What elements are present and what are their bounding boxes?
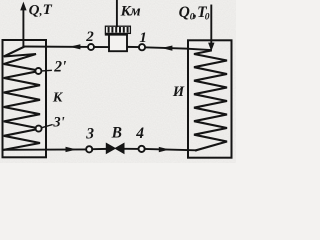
svg-text:И: И	[172, 84, 185, 100]
svg-text:2: 2	[85, 29, 94, 45]
paper grain	[0, 0, 236, 163]
wire: compressor to node 2 (discharge line)	[94, 46, 109, 48]
wire: valve to node 4	[124, 148, 139, 150]
compressor Km body	[109, 34, 127, 52]
svg-text:1: 1	[139, 30, 147, 46]
node 1	[139, 44, 145, 50]
condenser coil (zigzag)	[4, 47, 40, 150]
heat output arrow Q,T	[22, 8, 24, 47]
throttle valve B (bowtie)	[106, 143, 115, 153]
arrow on discharge line (flow left into condenser)	[69, 44, 80, 49]
svg-text:3': 3'	[52, 114, 64, 130]
wire: node 3 to valve	[92, 148, 106, 150]
svg-text:В: В	[111, 125, 122, 142]
compressor hatched head	[105, 26, 130, 34]
node 2	[88, 44, 94, 50]
wire: node 4 to evaporator	[145, 149, 196, 150]
svg-text:3: 3	[85, 126, 94, 143]
node 3' on condenser coil	[36, 126, 42, 132]
svg-text:4: 4	[135, 125, 144, 142]
wire: node 2 into condenser	[24, 46, 89, 48]
node 4	[139, 146, 145, 152]
svg-text:Км: Км	[120, 3, 141, 19]
arrow on bottom-right pipe (flow right)	[159, 147, 170, 152]
tick to 2' label	[41, 69, 51, 72]
evaporator vessel I outline	[188, 40, 232, 157]
heat input arrow Q0,T0 stem	[210, 6, 212, 45]
wire: evaporator to node 1 (suction line)	[188, 49, 211, 50]
svg-text:Q: Q	[179, 4, 190, 21]
arrow on bottom-left pipe (flow right)	[66, 147, 77, 152]
svg-text:Q,: Q,	[29, 2, 43, 18]
wire: bottom pipe from condenser to node 3	[4, 148, 86, 150]
svg-text:0: 0	[205, 13, 210, 23]
svg-text:2': 2'	[53, 58, 66, 75]
svg-text:T: T	[43, 2, 53, 18]
svg-text:К: К	[52, 91, 64, 106]
evaporator coil (zigzag)	[194, 51, 227, 151]
node 2' on condenser coil	[35, 68, 41, 74]
arrow on suction line (flow left to compressor)	[161, 46, 172, 51]
wire: node 1 to compressor	[127, 46, 139, 48]
condenser vessel K outline	[3, 40, 47, 157]
tick to 3' label	[42, 125, 52, 128]
node 3	[86, 146, 92, 152]
compressor drive stem	[116, 1, 118, 27]
